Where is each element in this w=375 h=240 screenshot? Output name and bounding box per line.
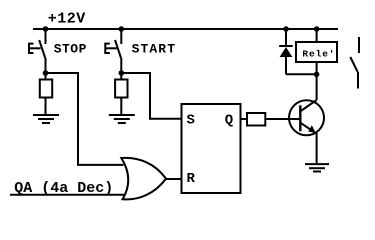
wire: collector up to relay node [316, 74, 318, 100]
svg-text:S: S [187, 113, 195, 129]
wire: STOP switch to node [45, 58, 47, 80]
wire: rail to relay coil [316, 29, 318, 42]
node: START lower junction [119, 70, 125, 76]
wire: START node to S input [121, 73, 181, 119]
transistor Q1 (NPN) [289, 100, 324, 135]
ground (emitter) [305, 164, 329, 171]
node: relay/diode/collector junction [314, 72, 320, 78]
svg-text:R: R [187, 171, 196, 187]
wire: STOP node to OR gate input A [46, 73, 124, 165]
wire: relay coil to collector node [316, 62, 318, 74]
svg-text:+12V: +12V [48, 11, 86, 28]
wire: R3 to transistor base [265, 118, 300, 120]
wire: R1 to ground [45, 98, 47, 116]
wire: START switch to node [120, 58, 122, 80]
svg-text:STOP: STOP [54, 42, 87, 57]
node: rail/relay junction [314, 26, 320, 32]
svg-text:Rele': Rele' [302, 49, 335, 60]
pushbutton switch STOP [28, 29, 46, 58]
node: rail/START junction [119, 26, 125, 32]
SR latch U1 [182, 104, 241, 193]
pushbutton switch START [104, 29, 121, 58]
wire: OR output to R input [166, 178, 182, 180]
wire: emitter down to ground [316, 133, 318, 163]
svg-text:START: START [132, 42, 177, 57]
+12V power rail [33, 28, 338, 30]
resistor R1 (STOP pull-down) [40, 80, 52, 98]
OR gate [121, 158, 166, 200]
svg-text:QA (4a Dec): QA (4a Dec) [14, 180, 113, 197]
svg-text:Q: Q [225, 113, 233, 129]
ground (STOP) [33, 115, 59, 123]
wire: diode anode to collector node [286, 73, 317, 75]
wire: QA input to OR gate input B [10, 194, 125, 196]
wire: Q output to R3 [241, 118, 248, 120]
relay coil box Rele' [296, 42, 337, 62]
resistor R2 (START pull-down) [115, 80, 127, 98]
ground (START) [109, 115, 135, 123]
relay contact switch [350, 37, 359, 89]
node: rail/STOP junction [43, 26, 49, 32]
wire: R2 to ground [120, 98, 122, 116]
diode D1 (flyback) [279, 29, 293, 74]
resistor R3 (base resistor) [247, 113, 265, 126]
node: rail/diode junction [283, 26, 289, 32]
node: STOP lower junction [43, 70, 49, 76]
